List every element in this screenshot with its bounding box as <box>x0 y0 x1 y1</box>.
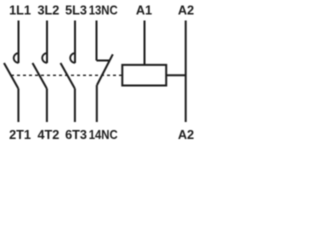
svg-text:1L1: 1L1 <box>9 3 31 17</box>
svg-text:A2: A2 <box>178 3 194 17</box>
svg-text:14NC: 14NC <box>89 128 118 142</box>
svg-text:6T3: 6T3 <box>65 128 87 142</box>
svg-text:4T2: 4T2 <box>37 128 59 142</box>
svg-text:2T1: 2T1 <box>9 128 31 142</box>
svg-text:13NC: 13NC <box>89 3 118 17</box>
svg-text:A1: A1 <box>136 3 152 17</box>
svg-text:A2: A2 <box>178 128 194 142</box>
svg-text:5L3: 5L3 <box>65 3 87 17</box>
svg-text:3L2: 3L2 <box>37 3 59 17</box>
